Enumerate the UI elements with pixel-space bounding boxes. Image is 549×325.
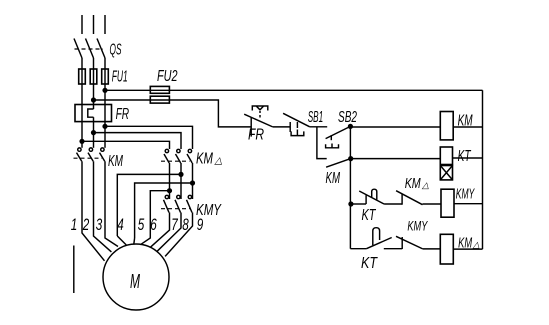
motor lead 1: [82, 161, 105, 260]
wire L3 to KM-delta right contact: [105, 126, 193, 149]
motor lead 9: [165, 213, 192, 257]
supply line L2: [93, 15, 95, 34]
junction lead 5 on KM-delta right: [190, 180, 195, 185]
contactor coil KMY: [441, 186, 475, 218]
wire L1 to KM-delta left contact: [82, 141, 170, 149]
junction on L3 below FR: [102, 124, 107, 129]
wire L3 to fuse: [104, 58, 106, 105]
motor lead 8: [157, 213, 181, 252]
wire row4 to KM-delta coil: [423, 248, 441, 250]
supply line L1: [81, 15, 83, 34]
motor lead 2: [94, 161, 112, 252]
start button SB2: [326, 109, 357, 148]
wire branch down from SB1 rail: [317, 127, 327, 159]
svg-text:FU1: FU1: [112, 69, 128, 86]
control bus vertical: [349, 126, 351, 248]
svg-text:KMY: KMY: [456, 186, 475, 203]
stop button SB1: [283, 109, 327, 136]
contactor KM main contacts: [74, 148, 124, 170]
contactor KM-delta main contacts: [161, 149, 223, 167]
wire KM-delta coil to bus: [453, 248, 482, 250]
wire lead 6: [140, 191, 169, 245]
wire control top rail: [105, 89, 483, 91]
svg-text:KM: KM: [405, 176, 422, 192]
svg-text:QS: QS: [110, 42, 122, 59]
KM-delta interlock NC contact: [396, 176, 429, 205]
motor lead 3: [105, 161, 118, 246]
fuse FU1: [79, 69, 128, 86]
motor M: [103, 244, 169, 310]
wire row1 to KM coil: [350, 126, 440, 128]
supply line L3: [104, 15, 106, 34]
junction on L2 at control feed: [91, 97, 96, 102]
svg-text:△: △: [472, 240, 480, 250]
KT delayed NO contact: [361, 228, 392, 272]
wire lead 5: [135, 183, 193, 238]
KT delayed NC contact: [359, 189, 384, 224]
wire row2 to KT coil: [351, 158, 441, 160]
wire row3 middle: [384, 203, 402, 205]
svg-text:KMY: KMY: [407, 218, 428, 234]
wire L2 through FR to KM contact: [93, 117, 95, 148]
junction lead 4 on KM-delta middle: [178, 172, 183, 177]
wire KM coil to bus: [453, 126, 482, 128]
junction KM aux: [348, 156, 353, 161]
svg-text:KT: KT: [362, 207, 377, 224]
svg-text:KT: KT: [361, 255, 378, 272]
wire L1 through FR to KM contact: [81, 105, 83, 148]
wire row4 from bus: [350, 248, 366, 250]
contactor coil KM-delta: [440, 234, 480, 264]
svg-text:4: 4: [117, 215, 124, 234]
fuse FU2: [150, 68, 177, 103]
svg-text:6: 6: [150, 215, 157, 234]
wire L2 to KM-delta middle contact: [94, 133, 182, 149]
svg-text:FR: FR: [248, 127, 264, 144]
junction on L2 below FR: [91, 130, 96, 135]
time relay coil KT: [440, 147, 471, 180]
svg-text:3: 3: [96, 215, 103, 234]
motor lead 5 tail: [133, 238, 136, 244]
right bus: [482, 90, 484, 249]
wire L3 through FR to KM contact: [104, 105, 106, 148]
svg-text:5: 5: [138, 215, 145, 234]
wire row3 from bus: [351, 203, 366, 205]
thermal overload relay FR heater box: [75, 105, 129, 124]
junction lead 6 on KM-delta left: [167, 188, 172, 193]
svg-text:SB1: SB1: [308, 109, 324, 126]
wire KMY coil to bus: [454, 203, 483, 205]
wire row3 to KMY coil: [423, 203, 442, 205]
KMY interlock NC contact: [396, 218, 428, 250]
KM self-holding aux contact: [326, 159, 351, 187]
wire lead 4: [117, 174, 181, 236]
wire L1 to fuse: [81, 58, 83, 105]
svg-text:9: 9: [197, 215, 204, 234]
junction KT row: [348, 201, 353, 206]
wire KT coil to bus: [453, 157, 483, 159]
svg-text:2: 2: [82, 215, 90, 234]
svg-text:△: △: [421, 180, 429, 190]
motor lead 7: [150, 213, 169, 248]
wire control second feed: [94, 100, 252, 127]
svg-text:KM: KM: [196, 151, 213, 168]
svg-text:FR: FR: [116, 106, 130, 123]
contactor coil KM: [440, 112, 473, 140]
junction SB2 top: [348, 124, 353, 129]
FR NC contact (control): [244, 106, 290, 144]
svg-text:FU2: FU2: [157, 68, 178, 85]
svg-text:KM: KM: [108, 153, 123, 170]
wire row4 middle: [384, 248, 402, 250]
svg-text:KM: KM: [326, 170, 341, 187]
wire KM-delta lower lines to KMY: [170, 163, 193, 199]
wire L2 to fuse: [93, 58, 95, 109]
motor lead 4 tail: [117, 236, 126, 245]
junction on L3 at top rail: [102, 88, 107, 93]
svg-text:SB2: SB2: [338, 109, 357, 126]
svg-text:△: △: [214, 156, 223, 167]
svg-text:KT: KT: [458, 148, 472, 165]
contactor KMY main contacts: [161, 195, 222, 219]
terminal numbers 1-9: [71, 215, 204, 234]
svg-text:1: 1: [71, 215, 78, 234]
svg-text:M: M: [130, 271, 140, 293]
disconnect switch QS: [74, 39, 122, 59]
ground stub line: [73, 246, 75, 294]
junction on L1 below FR: [79, 139, 84, 144]
